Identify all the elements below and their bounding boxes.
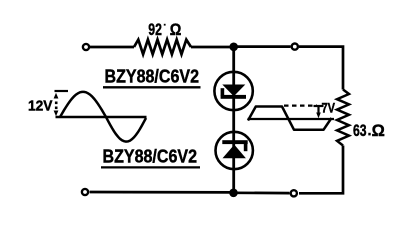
terminal T4 (bottom-left input, open circle) (82, 189, 88, 195)
svg-text:63: 63 (353, 122, 367, 140)
svg-text:Ω: Ω (372, 122, 385, 140)
resistor R2 zigzag (vertical) (337, 90, 349, 146)
wire (diode branch vertical, node A to node B) (232, 47, 235, 193)
node A (junction dot, top) (229, 43, 238, 52)
wire (bottom rail: T3 to junction B) (234, 191, 290, 194)
wire (top rail: R1 to junction A) (191, 46, 234, 49)
terminal T1 (top-left input, open circle) (83, 44, 89, 50)
zener diode D1 (top, BZY88/C6V2) (214, 72, 252, 110)
wire (top rail: junction A to terminal T2) (234, 45, 291, 48)
svg-text:7V: 7V (322, 100, 336, 116)
7V measure tick and arrow (314, 105, 324, 107)
input amplitude arrow (dotted, double-headed) (54, 93, 59, 116)
input waveform annotation: sine axis (56, 116, 147, 118)
zener diode D2 (bottom, BZY88/C6V2) (216, 132, 253, 169)
node B (junction dot, bottom) (229, 189, 238, 198)
wire (top rail: T2 to top-right corner and down to resistor R2) (299, 47, 343, 90)
input waveform annotation: sine curve (60, 92, 146, 142)
svg-text:12V: 12V (28, 98, 53, 115)
terminal T2 (top-right output, open circle) (292, 44, 298, 50)
resistor R1 zigzag (134, 40, 191, 55)
output waveform annotation: axis (248, 118, 335, 120)
svg-text:BZY88/C6V2: BZY88/C6V2 (103, 146, 198, 167)
input peak level tick (55, 90, 69, 92)
wire (right rail: R2 down to bottom-right corner, to terminal T3) (299, 146, 343, 194)
wire (bottom rail: junction B to terminal T4) (90, 191, 234, 194)
output waveform annotation: clipped wave (248, 107, 332, 130)
terminal T3 (bottom-right output, open circle) (291, 190, 297, 196)
svg-text:BZY88/C6V2: BZY88/C6V2 (105, 66, 200, 87)
svg-text:92: 92 (148, 21, 162, 39)
clip level dashed line (284, 104, 317, 106)
svg-text:Ω: Ω (170, 21, 182, 39)
wire (top rail: T1 to resistor R1) (90, 46, 134, 49)
